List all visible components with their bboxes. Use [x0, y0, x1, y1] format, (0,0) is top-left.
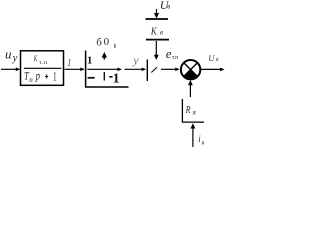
svg-text:1: 1	[67, 57, 73, 69]
wire from converter to relay	[65, 68, 85, 72]
svg-text:К: К	[150, 26, 157, 38]
wire control arrow down onto switch	[154, 41, 159, 60]
relay horizontal axis / output arrow	[87, 68, 122, 72]
svg-text:е: е	[166, 46, 172, 61]
svg-text:т.п: т.п	[39, 60, 47, 66]
summing junction X diagonals	[184, 63, 197, 76]
bar under K в	[146, 39, 169, 41]
wire from switch to summing junction	[161, 68, 180, 72]
svg-text:u: u	[5, 47, 12, 62]
wire arrow from below into summing junction	[188, 80, 193, 97]
wire arrow from U в down to bar	[154, 9, 159, 19]
node U в label	[160, 0, 171, 12]
value label K в	[150, 26, 163, 38]
relay nonlinearity box bottom edge	[85, 86, 129, 88]
svg-text:т.п: т.п	[172, 55, 179, 61]
relay nonlinearity box left edge	[85, 51, 87, 88]
relay vertical axis below	[103, 72, 105, 81]
bracket corner at R я	[182, 99, 204, 122]
relay -1 label	[109, 72, 119, 87]
wire output arrow U я	[201, 68, 225, 72]
svg-text:п: п	[29, 76, 33, 84]
svg-text:у: у	[132, 53, 139, 67]
svg-text:R: R	[185, 105, 191, 116]
value label R я	[185, 105, 196, 117]
svg-text:в: в	[160, 29, 163, 37]
wire input arrow to converter block	[1, 68, 20, 72]
svg-text:U: U	[208, 53, 215, 63]
relay vertical axis arrowhead	[102, 52, 107, 60]
block W1 thyristor converter box	[21, 51, 64, 86]
svg-text:1: 1	[113, 72, 120, 87]
summing junction circle	[181, 60, 200, 79]
summing junction filled bottom sector	[184, 70, 197, 79]
svg-text:p: p	[35, 69, 40, 83]
node uy input label	[5, 47, 18, 64]
svg-text:у: у	[12, 53, 18, 64]
svg-text:0: 0	[104, 36, 110, 48]
fraction bar of block W1	[24, 67, 61, 69]
svg-text:я: я	[200, 140, 204, 147]
node U я output label	[208, 53, 219, 63]
svg-text:1: 1	[53, 68, 57, 83]
label б 0 i above relay	[96, 36, 115, 48]
wire relay output to switch	[125, 68, 147, 72]
wire arrow from i я up to bar	[191, 123, 196, 147]
node i я label	[198, 134, 204, 147]
svg-text:б: б	[96, 37, 102, 49]
relay -1 branch dash	[88, 77, 95, 79]
node e т.п label	[166, 46, 179, 61]
value label T п p + 1 denominator	[24, 68, 57, 84]
svg-text:я: я	[192, 109, 196, 117]
value label K т.п numerator	[33, 53, 47, 66]
svg-text:1: 1	[87, 55, 93, 67]
switch contact bar	[146, 60, 148, 82]
switch lever slash	[151, 67, 157, 72]
bar under U в	[146, 18, 169, 20]
svg-text:я: я	[215, 57, 219, 63]
svg-text:в: в	[167, 3, 170, 11]
